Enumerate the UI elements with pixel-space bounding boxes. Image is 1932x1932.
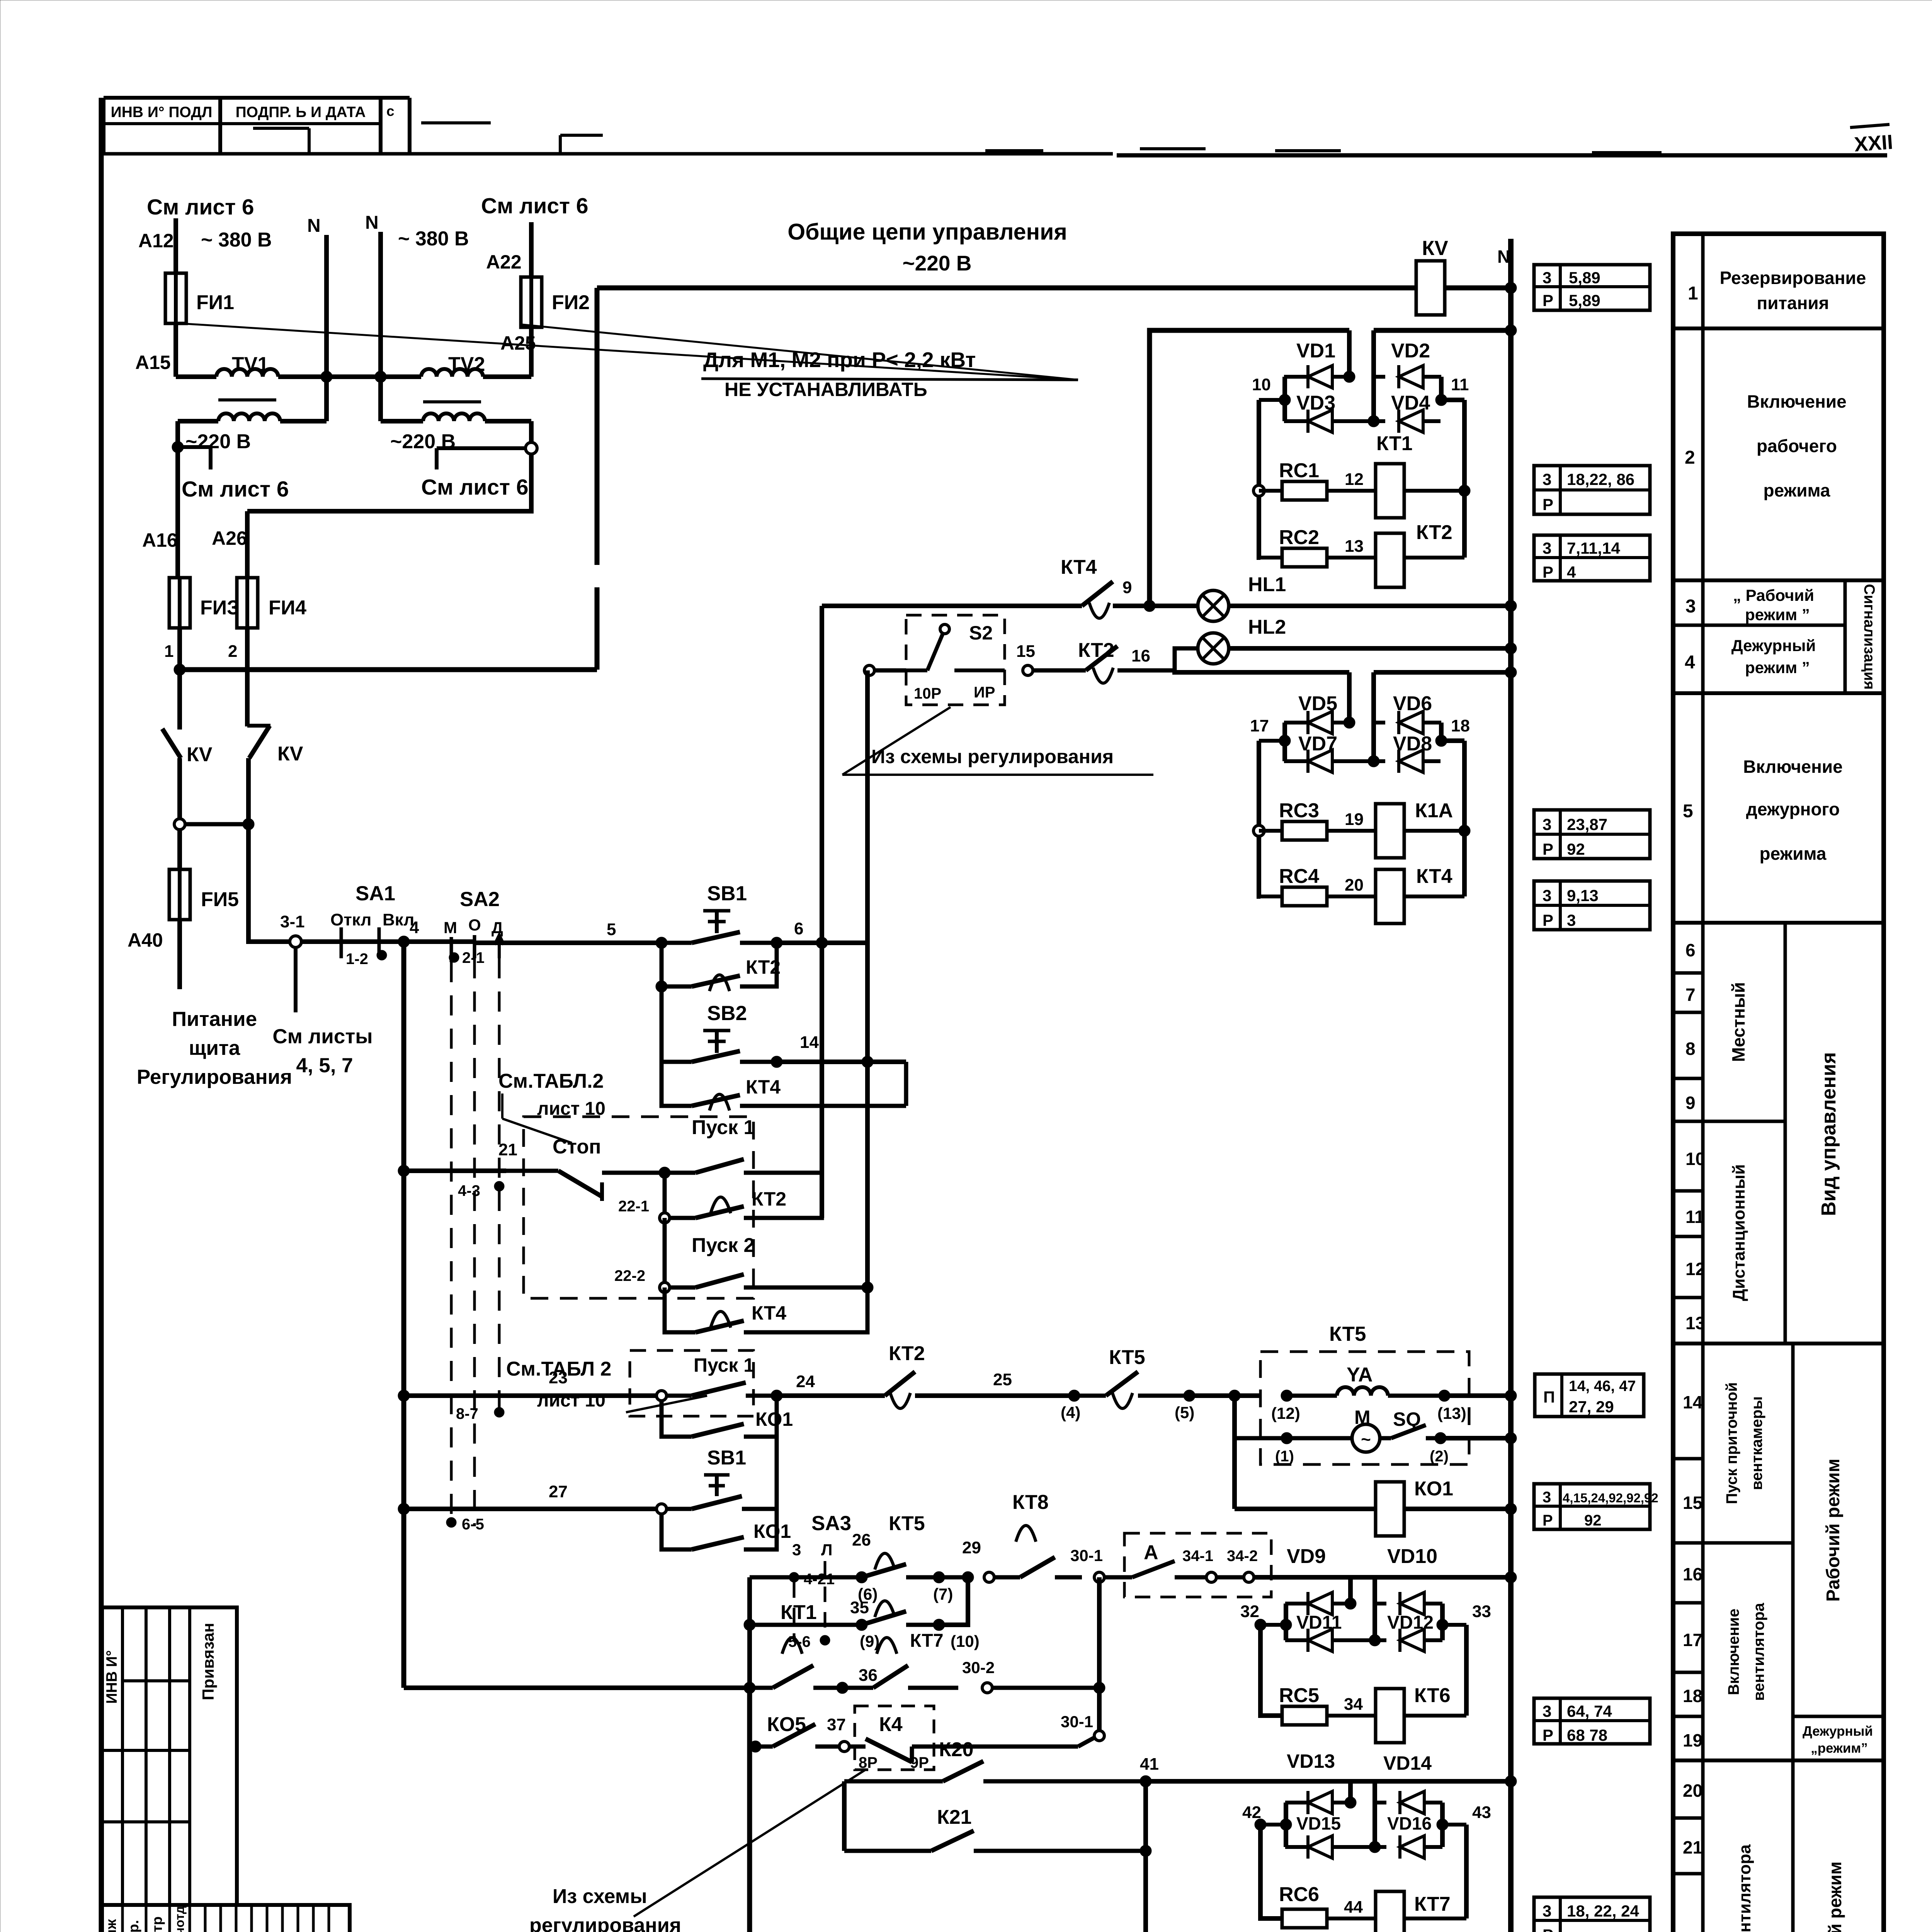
svg-text:19: 19 — [1345, 810, 1364, 829]
svg-text:щита: щита — [189, 1037, 240, 1060]
contact KT4 timed — [1082, 582, 1113, 606]
svg-text:RС6: RС6 — [1279, 1883, 1319, 1906]
svg-text:3: 3 — [792, 1541, 801, 1559]
main rail to SB1 — [475, 940, 662, 945]
svg-text:10: 10 — [1685, 1149, 1705, 1169]
svg-text:КТ4: КТ4 — [752, 1302, 786, 1324]
svg-text:Зам начотд: Зам начотд — [172, 1906, 187, 1932]
terminal 37 — [839, 1742, 849, 1752]
svg-text:FИ1: FИ1 — [196, 291, 234, 314]
diode VD12 — [1375, 1638, 1386, 1642]
svg-text:КТ5: КТ5 — [889, 1512, 925, 1535]
diode VD15 — [1285, 1845, 1308, 1849]
row K05/37/K4 — [750, 1741, 761, 1752]
svg-text:18: 18 — [1451, 716, 1470, 735]
svg-text:26: 26 — [852, 1531, 871, 1549]
svg-text:SА1: SА1 — [355, 882, 395, 905]
svg-text:32: 32 — [1240, 1602, 1259, 1621]
svg-text:6-5: 6-5 — [462, 1516, 484, 1533]
svg-text:Пуск 1: Пуск 1 — [692, 1116, 755, 1139]
wire row 36 — [404, 1685, 750, 1690]
contact Пуск2 — [663, 1218, 667, 1287]
node 11 — [1435, 394, 1447, 406]
lamp HL1 — [1144, 604, 1198, 608]
svg-text:14: 14 — [1683, 1392, 1703, 1412]
svg-text:3: 3 — [1543, 269, 1551, 287]
diode VD8 — [1374, 759, 1385, 763]
svg-text:Пуск приточной: Пуск приточной — [1723, 1382, 1740, 1504]
svg-text:HL2: HL2 — [1248, 616, 1286, 638]
node Пуск2 right bus — [862, 1282, 873, 1293]
svg-text:КТ2: КТ2 — [1416, 521, 1452, 544]
bridge feed VD9 — [1348, 1577, 1353, 1604]
svg-text:КТ7: КТ7 — [910, 1631, 944, 1651]
svg-text:1: 1 — [164, 642, 173, 661]
label 5-6 — [820, 1635, 830, 1645]
svg-text:лист 10: лист 10 — [537, 1390, 605, 1411]
svg-text:92: 92 — [1567, 840, 1585, 858]
wire TV2 sec right corner — [529, 421, 534, 444]
svg-text:КТ4: КТ4 — [746, 1076, 781, 1098]
svg-text:68 78: 68 78 — [1567, 1726, 1607, 1744]
svg-text:Регулирования: Регулирования — [137, 1066, 292, 1088]
wire KV branch A16 down — [177, 670, 182, 730]
top border line — [104, 152, 1113, 156]
svg-text:22-2: 22-2 — [614, 1267, 645, 1284]
svg-text:2: 2 — [1685, 447, 1695, 468]
svg-text:Сигнализация: Сигнализация — [1861, 584, 1878, 690]
svg-text:Включение: Включение — [1725, 1609, 1742, 1695]
svg-text:А40: А40 — [128, 929, 163, 951]
diode VD16 — [1375, 1845, 1386, 1849]
resistor RC5 — [1282, 1706, 1327, 1725]
node (5) — [1184, 1390, 1195, 1401]
svg-text:КТ7: КТ7 — [1414, 1893, 1451, 1915]
resistor RC4 — [1260, 895, 1282, 898]
rail 30 vertical — [1097, 1577, 1102, 1730]
contact KT4 hook (SB2 bypass) — [709, 1094, 730, 1111]
svg-text:3: 3 — [1543, 1702, 1551, 1720]
svg-text:VD6: VD6 — [1393, 692, 1432, 715]
terminal KV left — [174, 819, 185, 830]
svg-text:30-2: 30-2 — [962, 1658, 995, 1677]
N bus vertical — [1508, 239, 1514, 1932]
node 24 — [771, 1390, 782, 1401]
wire SA3 row2 — [750, 1623, 862, 1627]
wire KT4 out — [1404, 895, 1464, 898]
wire VD5 feed — [1347, 672, 1352, 723]
svg-text:13: 13 — [1685, 1313, 1705, 1333]
ref box З 7,11,14 Р 4 — [1534, 535, 1650, 581]
svg-text:N: N — [307, 216, 321, 236]
wire KO1 row — [1235, 1507, 1376, 1511]
svg-text:Резервирование: Резервирование — [1720, 268, 1866, 288]
svg-text:См лист 6: См лист 6 — [481, 194, 588, 218]
node row-a N — [1505, 1571, 1517, 1583]
rail x2965 down — [1143, 1781, 1148, 1932]
right rail group2 — [1439, 723, 1444, 741]
bus drop to node6 — [820, 606, 824, 943]
terminal 15 — [1023, 665, 1033, 675]
svg-text:VD1: VD1 — [1296, 340, 1335, 362]
svg-text:КТ1: КТ1 — [1376, 432, 1413, 455]
svg-text:17: 17 — [1250, 716, 1269, 735]
svg-text:Рабочий режим: Рабочий режим — [1825, 1861, 1845, 1932]
contact KV (left) — [162, 729, 181, 758]
terminal 34-2 — [1216, 1575, 1243, 1580]
svg-text:режим ”: режим ” — [1745, 658, 1810, 677]
wire VD1 feed — [1347, 330, 1352, 377]
node SB2 left — [656, 981, 667, 992]
svg-text:30-1: 30-1 — [1061, 1713, 1093, 1731]
svg-text:19: 19 — [1683, 1730, 1702, 1750]
svg-text:КТ2: КТ2 — [752, 1188, 786, 1210]
svg-text:~220 В: ~220 В — [185, 430, 251, 453]
svg-text:КО1: КО1 — [755, 1408, 793, 1430]
svg-text:37: 37 — [827, 1715, 846, 1734]
node TV1 sec — [172, 441, 184, 453]
bridge4 left down — [1260, 1825, 1283, 1918]
ref box З 23,87 Р 92 — [1534, 810, 1650, 859]
node N1 — [321, 371, 332, 383]
node 26 — [856, 1571, 867, 1583]
node Пуск1 left — [659, 1167, 670, 1179]
wire secondary bus down-left — [247, 454, 531, 511]
TV2 primary winding — [421, 369, 437, 377]
svg-text:(9): (9) — [860, 1632, 879, 1650]
node 41-N — [1505, 1776, 1517, 1787]
svg-text:3: 3 — [1543, 539, 1551, 557]
KT2 bypass of SB1 — [662, 943, 692, 986]
stub to См лист 6 right — [437, 446, 526, 450]
switch SA1 ticks — [340, 927, 343, 958]
TV2 secondary winding — [381, 419, 423, 423]
svg-text:9Р: 9Р — [910, 1754, 929, 1771]
svg-text:режима: режима — [1760, 844, 1827, 864]
svg-text:14, 46, 47: 14, 46, 47 — [1569, 1378, 1636, 1395]
diode VD14 — [1372, 1781, 1377, 1847]
node 8-7 — [494, 1407, 504, 1417]
node group2 top N — [1505, 667, 1517, 678]
right rail group2 down — [1441, 738, 1464, 743]
node K1A out — [1459, 825, 1470, 837]
left rail bridge3 — [1284, 1604, 1288, 1640]
svg-text:(12): (12) — [1271, 1404, 1300, 1422]
svg-text:VD12: VD12 — [1387, 1612, 1434, 1633]
ref box З 18,22,86 — [1534, 466, 1650, 514]
svg-text:SВ2: SВ2 — [707, 1002, 747, 1025]
svg-text:Включение: Включение — [1747, 391, 1847, 412]
terminal 29 right — [984, 1572, 994, 1582]
svg-text:VD2: VD2 — [1391, 340, 1430, 362]
svg-text:Дежурный: Дежурный — [1731, 636, 1816, 655]
node row27 — [398, 1503, 410, 1515]
svg-text:Из схемы регулирования: Из схемы регулирования — [871, 746, 1114, 767]
relay coil KV — [1416, 261, 1445, 315]
node 6 — [771, 937, 782, 949]
node SB1 left — [656, 937, 667, 949]
svg-text:ПОДПР. Ь И ДАТА: ПОДПР. Ь И ДАТА — [236, 104, 366, 121]
svg-text:18, 22, 24: 18, 22, 24 — [1567, 1902, 1639, 1920]
wire row27 — [404, 1507, 662, 1511]
svg-text:XXII: XXII — [1854, 131, 1894, 156]
wire node1 to control-bus riser — [180, 667, 597, 672]
wire KT7 out — [1404, 1917, 1466, 1920]
svg-text:КО1: КО1 — [1414, 1478, 1453, 1500]
svg-text:VD3: VD3 — [1296, 392, 1335, 414]
svg-text:Рабочий режим: Рабочий режим — [1823, 1459, 1844, 1602]
terminal 3-1 — [290, 936, 301, 947]
contact KT5 row — [1074, 1394, 1106, 1398]
wire 14 to bus — [777, 1060, 906, 1064]
dashed box K4 — [855, 1706, 934, 1770]
wire FU1 to TV1 — [173, 324, 178, 377]
svg-text:12: 12 — [1685, 1259, 1705, 1279]
table ИНВ-Привязан — [102, 1607, 237, 1905]
divider местный/дистанционный — [1703, 1120, 1785, 1123]
node 1 junction — [174, 664, 185, 675]
svg-text:4: 4 — [1685, 652, 1695, 673]
svg-text:23: 23 — [549, 1368, 568, 1387]
diode VD5 — [1284, 721, 1308, 724]
svg-text:5: 5 — [1683, 801, 1693, 821]
contact Пуск1 (row23) — [656, 1391, 667, 1401]
leader Из схемы регулирования (K4) — [634, 1770, 866, 1917]
TV1 secondary winding — [178, 419, 218, 423]
bypass KT4 (Пуск2) — [665, 1287, 696, 1332]
node 35 — [856, 1619, 867, 1631]
svg-text:венткамеры: венткамеры — [1748, 1396, 1765, 1490]
wire 3-1 to SA1 — [301, 939, 361, 944]
column divider rows14-24 — [1791, 1344, 1795, 1932]
svg-text:N: N — [365, 213, 379, 233]
svg-text:3-1: 3-1 — [280, 912, 305, 931]
wire K1A out — [1404, 829, 1464, 833]
svg-text:1: 1 — [1688, 283, 1698, 304]
node (13) — [1439, 1390, 1450, 1401]
wire 41 to bridge and N — [1146, 1779, 1511, 1784]
svg-text:2: 2 — [228, 642, 237, 661]
contact Пуск1 — [665, 1171, 696, 1175]
svg-text:42: 42 — [1242, 1803, 1261, 1822]
wire M row — [1232, 1396, 1237, 1509]
svg-text:КТ5: КТ5 — [1109, 1346, 1145, 1369]
svg-text:5,89: 5,89 — [1569, 291, 1600, 310]
control bus riser — [595, 587, 600, 670]
lamp HL2 — [1175, 648, 1198, 670]
svg-text:Вид управления: Вид управления — [1818, 1052, 1840, 1216]
node 32 — [1255, 1619, 1266, 1631]
bus x2127 segment — [820, 943, 824, 1218]
diode VD6 — [1374, 721, 1385, 724]
svg-text:Р: Р — [1543, 1512, 1553, 1529]
ref box З 18,22,24 — [1534, 1897, 1650, 1932]
wire 25 — [949, 1393, 1074, 1398]
wire N1 drop — [324, 235, 329, 377]
wire VD2 feed — [1371, 330, 1376, 421]
node row36 left bus — [744, 1682, 755, 1694]
contact KT5 (SA3 row2) — [875, 1601, 895, 1617]
svg-text:КV: КV — [277, 743, 303, 765]
contact KT2 timed — [1033, 668, 1086, 673]
svg-text:О: О — [468, 916, 481, 934]
svg-text:4: 4 — [410, 918, 419, 937]
wire VD6 feed — [1371, 672, 1376, 761]
fuse FU2 — [521, 277, 542, 327]
signature table — [102, 1905, 350, 1932]
svg-text:режима: режима — [1764, 480, 1830, 500]
svg-text:11: 11 — [1451, 375, 1469, 394]
function table number column — [1701, 234, 1705, 1932]
wire FU2 to TV2 — [529, 327, 534, 377]
node KO1-N — [1505, 1503, 1517, 1515]
svg-text:FИ2: FИ2 — [552, 291, 590, 314]
svg-text:24: 24 — [796, 1372, 815, 1391]
function table partial row lines rows14-24 — [1673, 1457, 1703, 1461]
svg-text:10Р: 10Р — [914, 685, 941, 702]
node Mrow-N — [1505, 1432, 1517, 1444]
svg-text:SА3: SА3 — [811, 1512, 851, 1535]
svg-text:рабочего: рабочего — [1757, 436, 1837, 456]
contact KT2 hook (SB1 bypass) — [709, 975, 730, 991]
node YA-N — [1505, 1390, 1517, 1401]
svg-text:А26: А26 — [212, 527, 247, 549]
wire KO1 to N — [1404, 1507, 1511, 1511]
svg-text:(5): (5) — [1175, 1403, 1194, 1422]
relay coil KT2 — [1376, 533, 1404, 587]
svg-text:34-1: 34-1 — [1182, 1548, 1213, 1565]
svg-text:43: 43 — [1472, 1803, 1491, 1822]
svg-text:Из схемы: Из схемы — [553, 1885, 647, 1908]
node KV join — [243, 818, 254, 830]
contact KV (right) — [249, 726, 270, 758]
bus S2 drop to node14 — [865, 670, 870, 1057]
right rail bridge3 — [1440, 1604, 1445, 1640]
ref box З 64,74 Р 68,78 — [1534, 1698, 1650, 1744]
node 14 — [771, 1056, 782, 1068]
wire FU4 to node 2 — [245, 626, 250, 670]
svg-text:ИНВ И°: ИНВ И° — [104, 1650, 120, 1704]
svg-text:34-2: 34-2 — [1227, 1548, 1258, 1565]
svg-text:SВ1: SВ1 — [707, 882, 747, 905]
right rail bridge4 — [1440, 1803, 1445, 1847]
dashed box A — [1124, 1533, 1271, 1597]
wire 24 to KT2 — [777, 1393, 885, 1398]
svg-text:Пуск 2: Пуск 2 — [692, 1234, 755, 1257]
diode VD10 — [1372, 1577, 1377, 1640]
wire YA to N — [1444, 1393, 1511, 1398]
svg-text:„режим”: „режим” — [1811, 1741, 1868, 1756]
wire group2 top — [1175, 670, 1349, 672]
svg-text:VD10: VD10 — [1387, 1545, 1437, 1568]
node VD5 out — [1344, 717, 1355, 728]
relay coil KO1 — [1376, 1482, 1404, 1536]
group1 left rail down — [1259, 400, 1260, 558]
svg-text:3: 3 — [1543, 470, 1551, 488]
diode VD2 — [1374, 375, 1385, 379]
svg-text:Р: Р — [1543, 495, 1553, 514]
svg-text:16: 16 — [1131, 646, 1150, 665]
svg-text:дежурного: дежурного — [1746, 799, 1840, 819]
svg-text:вентилятора: вентилятора — [1750, 1602, 1767, 1701]
stub to См лист 6 left — [178, 445, 211, 449]
svg-text:9,13: 9,13 — [1567, 886, 1599, 905]
svg-text:27, 29: 27, 29 — [1569, 1398, 1614, 1416]
dashed box таблица2 — [524, 1117, 753, 1298]
svg-text:6: 6 — [1685, 940, 1696, 960]
function table full row lines — [1673, 327, 1884, 330]
svg-text:23,87: 23,87 — [1567, 815, 1607, 833]
svg-text:34: 34 — [1344, 1695, 1363, 1714]
node 1-2 — [377, 950, 387, 960]
svg-text:Р: Р — [1543, 1726, 1553, 1744]
svg-text:29: 29 — [962, 1538, 981, 1557]
wire FU5 drop — [177, 830, 182, 873]
node (1) — [1281, 1432, 1293, 1444]
svg-text:А22: А22 — [486, 251, 522, 273]
svg-text:S2: S2 — [969, 622, 993, 644]
svg-text:А12: А12 — [138, 230, 174, 252]
node junction x3195 — [1229, 1390, 1240, 1401]
svg-text:4, 5, 7: 4, 5, 7 — [296, 1054, 353, 1077]
svg-text:Дежурный: Дежурный — [1803, 1724, 1873, 1739]
svg-text:Дистанционный: Дистанционный — [1730, 1164, 1748, 1301]
svg-text:8-7: 8-7 — [456, 1405, 478, 1422]
svg-text:FИЗ: FИЗ — [200, 597, 240, 619]
TV1 primary winding — [176, 374, 216, 379]
svg-text:17: 17 — [1683, 1630, 1702, 1650]
svg-text:9: 9 — [1122, 578, 1132, 597]
ref box З 9,13 Р 3 — [1534, 881, 1650, 930]
dashed box Пуск1 row23 — [630, 1350, 753, 1416]
wire A26 drop — [245, 511, 250, 579]
svg-text:Р: Р — [1543, 563, 1553, 581]
terminal RC3 left — [1253, 825, 1264, 836]
svg-text:Л: Л — [821, 1541, 832, 1559]
svg-text:Общие цепи управления: Общие цепи управления — [787, 219, 1067, 245]
svg-text:18,22, 86: 18,22, 86 — [1567, 470, 1634, 488]
divider row19 right — [1793, 1715, 1884, 1718]
svg-text:Стоп: Стоп — [553, 1136, 601, 1158]
wire KV join down to rail — [248, 824, 291, 942]
svg-text:См.ТАБЛ.2: См.ТАБЛ.2 — [498, 1070, 604, 1092]
wire A16 drop — [175, 447, 180, 579]
svg-text:(7): (7) — [933, 1585, 953, 1603]
svg-text:VD15: VD15 — [1296, 1813, 1341, 1833]
svg-text:FИ4: FИ4 — [269, 597, 306, 619]
switch S2 box — [906, 615, 1005, 705]
diode VD7 — [1284, 759, 1308, 763]
svg-text:регулирования: регулирования — [529, 1914, 681, 1932]
svg-text:18: 18 — [1683, 1686, 1702, 1706]
node VD7 out — [1368, 755, 1379, 767]
wire 3-1 drop — [294, 947, 298, 1012]
right rail group1 — [1439, 377, 1444, 400]
svg-text:КV: КV — [1422, 237, 1448, 260]
svg-text:21: 21 — [498, 1140, 517, 1159]
wire 30-2 to rail — [992, 1686, 1099, 1690]
terminal 30-1a — [1094, 1572, 1104, 1582]
top-left stamp table — [104, 96, 410, 100]
wire KV branch A26 down — [245, 670, 250, 726]
node 33 — [1442, 1623, 1466, 1627]
contact A — [1104, 1575, 1132, 1580]
function table mid column (rows 3-4) — [1844, 580, 1847, 693]
svg-text:VD11: VD11 — [1296, 1612, 1342, 1633]
svg-text:RС5: RС5 — [1279, 1684, 1319, 1707]
bypass KO1 row27 — [662, 1514, 692, 1549]
svg-text:4: 4 — [1567, 563, 1576, 581]
